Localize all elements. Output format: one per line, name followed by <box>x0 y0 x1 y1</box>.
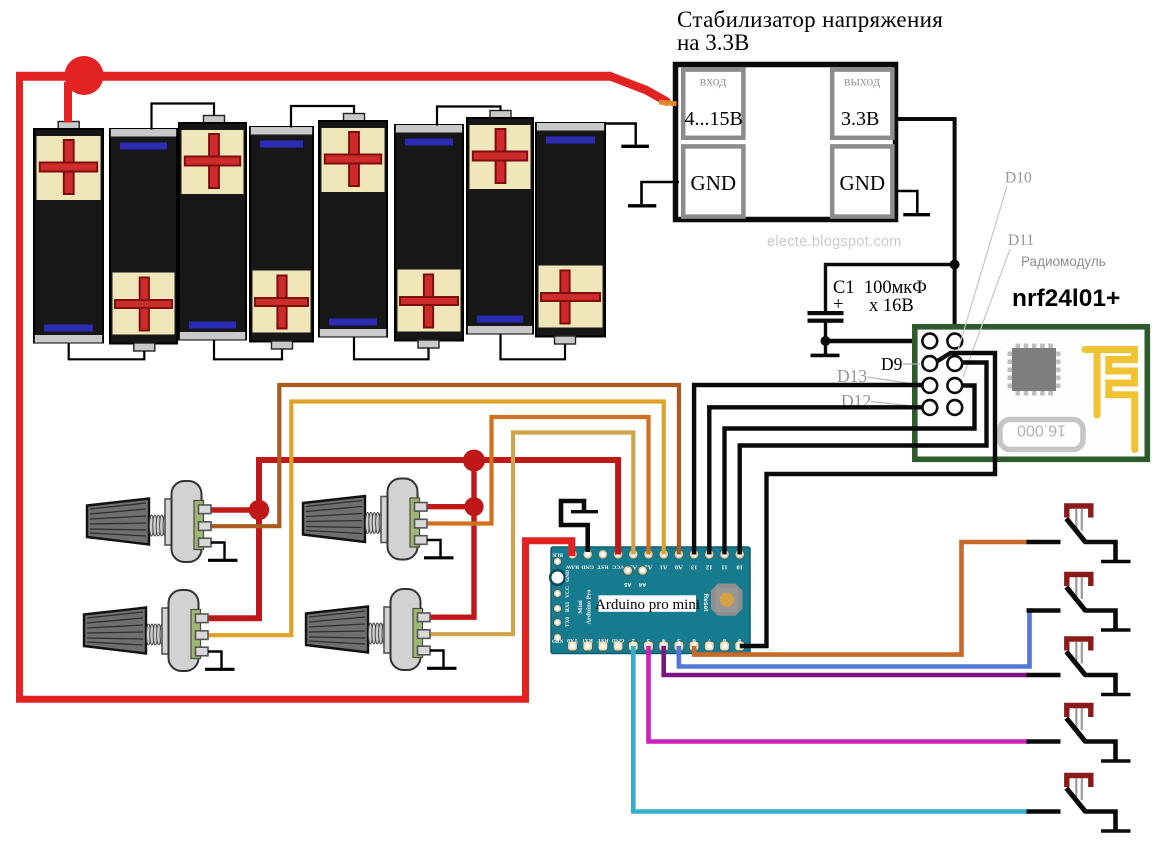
svg-text:11: 11 <box>721 563 727 570</box>
wire orange tip at stabilizer input <box>659 102 677 104</box>
label D12 <box>841 391 921 411</box>
svg-text:RST: RST <box>597 637 608 643</box>
svg-text:выход: выход <box>844 75 880 90</box>
svg-text:Стабилизатор напряжения: Стабилизатор напряжения <box>677 7 943 32</box>
battery B4 <box>250 127 313 349</box>
wire battery B3-B4 bottom link <box>214 340 282 360</box>
svg-text:TX0: TX0 <box>565 617 571 627</box>
svg-text:2: 2 <box>632 637 635 644</box>
arduino reset button <box>711 584 743 616</box>
svg-text:Arduino Pro: Arduino Pro <box>586 589 593 624</box>
svg-text:4...15В: 4...15В <box>685 108 743 130</box>
wire D13 arduino pin13 to radio <box>694 385 922 555</box>
arduino left pin labels <box>565 570 571 627</box>
regulator input terminal 4...15V <box>683 70 743 138</box>
crystal 16.000 <box>1000 420 1083 450</box>
regulator output GND terminal <box>832 146 892 216</box>
arduino A4 A5 pins <box>623 566 647 587</box>
arduino pro mini board <box>551 547 750 654</box>
wire D10 arduino pin10 to radio <box>740 363 987 555</box>
svg-text:RST: RST <box>597 563 608 569</box>
svg-text:RAW: RAW <box>566 563 580 569</box>
antenna trace <box>1085 350 1135 450</box>
pushbutton S5 <box>1027 776 1131 832</box>
label D9 <box>881 354 920 374</box>
node VCC junction R1 <box>249 500 269 520</box>
svg-text:A5: A5 <box>623 581 631 587</box>
pushbutton S1 <box>1027 506 1131 562</box>
wire battery B2-B3 top link <box>152 104 215 130</box>
svg-text:х 16В: х 16В <box>869 296 914 316</box>
battery B6 <box>395 125 463 348</box>
battery B3 <box>179 116 246 340</box>
wire battery B4-B5 top link <box>291 106 354 128</box>
svg-text:Reset: Reset <box>702 594 709 613</box>
node 3.3V junction <box>950 260 960 270</box>
arduino top pin header <box>568 550 745 559</box>
potentiometer R2 <box>303 479 454 560</box>
wire battery B7-B8 bottom link <box>501 334 566 360</box>
regulator input GND terminal <box>683 146 743 216</box>
battery B2 <box>110 129 177 351</box>
wire pin4 to button S3 (purple) <box>664 646 1028 675</box>
svg-text:nrf24l01+: nrf24l01+ <box>1012 285 1120 312</box>
radio module nrf24l01+ board <box>915 327 1148 460</box>
regulator output terminal 3.3V <box>832 70 892 138</box>
label D11 <box>963 232 1034 377</box>
label D13 <box>837 366 921 386</box>
svg-text:GND: GND <box>612 637 625 643</box>
svg-text:electe.blogspot.com: electe.blogspot.com <box>767 234 902 250</box>
svg-text:12: 12 <box>706 563 713 570</box>
svg-text:13: 13 <box>690 563 697 570</box>
svg-text:3.3В: 3.3В <box>841 108 879 130</box>
potentiometer R3 <box>84 590 235 671</box>
wire battery B5-B6 bottom link <box>354 337 429 360</box>
arduino label plate <box>595 595 700 613</box>
wire A2 potentiometer R2 wiper <box>427 417 649 555</box>
svg-text:вход: вход <box>700 75 727 90</box>
wire red battery positive bus <box>16 72 667 699</box>
svg-text:GND: GND <box>581 563 594 569</box>
junction node battery bus <box>65 56 104 95</box>
arduino top pin labels <box>566 563 743 570</box>
node capacitor ground junction <box>821 336 831 346</box>
ground capacitor C1 <box>811 341 840 355</box>
wire C1 junction to radio module VCC pin <box>826 339 923 344</box>
pushbutton S2 <box>1027 575 1131 631</box>
ground battery B8 <box>605 124 650 147</box>
wire A0 potentiometer R1 wiper <box>211 385 679 555</box>
svg-text:Arduino pro mini: Arduino pro mini <box>595 597 700 613</box>
radio module header pins <box>922 334 962 415</box>
svg-text:GND: GND <box>840 171 886 195</box>
svg-text:VCC: VCC <box>612 563 624 569</box>
potentiometer R1 <box>87 481 238 562</box>
wire A3 potentiometer R4 wiper <box>430 433 633 635</box>
svg-text:RXI: RXI <box>565 602 571 612</box>
wire pin2 to button S5 (cyan) <box>633 646 1028 812</box>
svg-text:10: 10 <box>736 563 743 570</box>
node VCC junction bus <box>463 450 485 472</box>
wire A1 potentiometer R3 wiper <box>208 402 664 636</box>
battery B1 <box>34 122 103 343</box>
ground regulator output <box>897 191 930 215</box>
arduino bottom pin header <box>568 641 745 651</box>
svg-text:D9: D9 <box>881 354 903 374</box>
svg-text:GND: GND <box>691 171 737 195</box>
svg-text:A1: A1 <box>660 563 668 570</box>
voltage regulator U1 title <box>677 7 943 55</box>
svg-text:GRN: GRN <box>552 639 564 645</box>
arduino left pin header <box>550 558 565 642</box>
label D10 <box>958 170 1032 353</box>
svg-text:Mini: Mini <box>577 600 584 614</box>
wire battery B1-B2 bottom link <box>69 343 145 360</box>
battery B8 <box>536 123 605 344</box>
svg-text:16.000: 16.000 <box>1017 422 1066 439</box>
arduino corner labels <box>552 552 564 646</box>
svg-text:RXI: RXI <box>582 637 593 643</box>
wire 3.3V output to radio module <box>896 119 955 335</box>
svg-text:C1 100мкФ: C1 100мкФ <box>833 278 927 298</box>
ground arduino GND pin <box>561 501 598 552</box>
wire pin6 to button S1 (orange) <box>694 542 1028 655</box>
wire D9 arduino pin9 to radio <box>740 353 995 646</box>
wire pin5 to button S2 (blue) <box>679 611 1033 667</box>
arduino bottom pin labels <box>567 637 741 644</box>
battery B5 <box>319 114 387 337</box>
svg-text:BLK: BLK <box>552 552 563 558</box>
wire D12 arduino pin12 to radio <box>709 407 922 554</box>
svg-text:D10: D10 <box>1005 170 1032 187</box>
svg-text:VCC: VCC <box>565 586 571 598</box>
wire D11 arduino pin11 to radio <box>725 386 975 555</box>
pushbutton S4 <box>1027 706 1131 762</box>
radio module RF chip <box>1008 344 1061 396</box>
wire pin3 to button S4 (magenta) <box>649 646 1029 742</box>
voltage regulator U1 body <box>676 65 896 220</box>
wire VCC bus to potentiometers <box>208 460 618 618</box>
svg-text:A0: A0 <box>675 563 683 570</box>
wire battery B6-B7 top link <box>437 107 501 126</box>
capacitor C1 <box>808 278 927 341</box>
svg-text:+: + <box>833 295 843 315</box>
svg-text:на 3.3В: на 3.3В <box>677 30 749 55</box>
arduino silk Mini Arduino Pro <box>577 589 593 624</box>
svg-text:GND: GND <box>565 570 571 582</box>
ground regulator input <box>628 182 679 206</box>
node VCC junction R2 <box>464 497 483 516</box>
svg-text:Радиомодуль: Радиомодуль <box>1021 254 1106 269</box>
battery B7 <box>467 111 533 334</box>
svg-text:A4: A4 <box>638 581 646 587</box>
potentiometer R4 <box>306 589 457 670</box>
svg-text:TX0: TX0 <box>567 637 578 643</box>
pushbutton S3 <box>1027 639 1131 695</box>
svg-text:D11: D11 <box>1008 232 1034 249</box>
wire junction to capacitor C1 <box>826 265 955 312</box>
wire red to battery B1 terminal <box>64 82 72 123</box>
